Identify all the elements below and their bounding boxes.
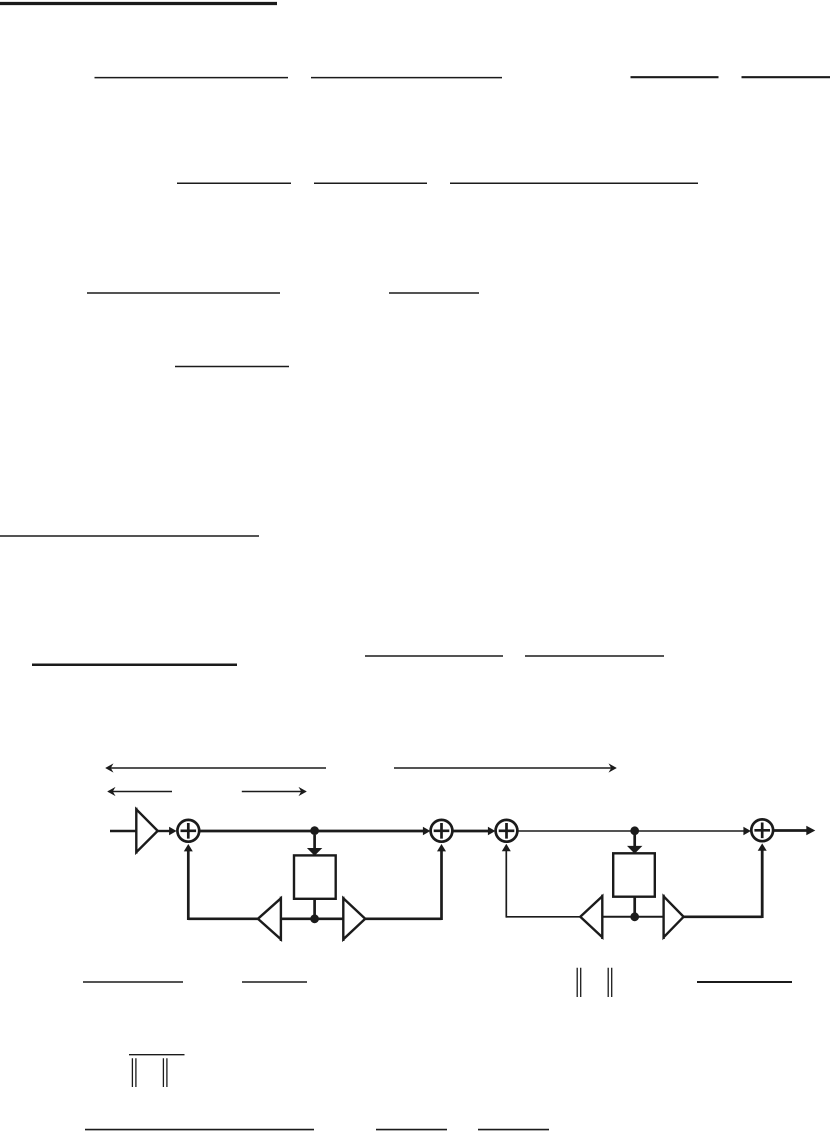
adder S1a [177, 820, 199, 842]
fraction bar eq row 1 seg 1 [95, 77, 289, 79]
wire: output [774, 829, 808, 832]
fraction bar eq row 1 seg 2 [311, 77, 502, 79]
gain triangle L1 (points left) [258, 897, 281, 941]
delay box 2 [613, 853, 655, 896]
gain triangle L2 (points left) [580, 895, 602, 939]
wire: input [110, 830, 136, 832]
wire: N1 to adder S1b [315, 830, 424, 833]
wire: N2 down to delay box 2 [633, 835, 636, 847]
section heading underline (left margin) [0, 535, 259, 537]
fraction bar eq row 1 seg 4 [742, 76, 830, 78]
adder S1b [431, 820, 453, 842]
wire: feedback corner to left gain L1 [188, 917, 258, 920]
node N2 [630, 826, 639, 835]
underline row 6 seg 3 [697, 981, 792, 983]
underline row 3 seg 2 [389, 292, 479, 294]
wire: N1 down to delay box 1 [313, 835, 316, 849]
fraction bar eq row 2 seg 3 [450, 182, 698, 184]
delay box 1 [294, 855, 336, 898]
riser: right feedback up to S2b [761, 848, 764, 919]
norm bars pair 1 [577, 968, 581, 997]
wire: box 2 to node N2b [633, 897, 636, 917]
wire: R2 to right corner [684, 915, 763, 918]
wire: feedback corner to left gain L2 (thin) [506, 916, 581, 918]
bottom underline seg 3 [478, 1129, 549, 1131]
fraction bar eq row 5 seg 2 [525, 655, 664, 657]
norm bars pair 3 (denominator) [132, 1058, 136, 1087]
bottom underline seg 1 [85, 1129, 314, 1131]
fraction bar eq row 5 seg 1 [365, 655, 503, 657]
node N1 [310, 826, 319, 835]
fraction bar (lower-left equation) [129, 1054, 185, 1056]
wire: box 1 to node N1b [313, 899, 316, 919]
gain triangle B1 (input) [136, 808, 157, 854]
adder S2b [751, 819, 773, 841]
wire: S2a to node N2 (thin) [518, 830, 635, 832]
heading underline (thick, mid-page) [32, 663, 237, 666]
wire: L1 base to N1b [281, 917, 315, 920]
wire: N1b to right gain R1 [315, 917, 344, 920]
underline row 6 seg 2 [242, 981, 307, 983]
wire: N2 to adder S2b (thin) [635, 830, 745, 832]
wire: R1 to right corner [365, 917, 441, 920]
underline row 3 seg 1 [87, 292, 280, 294]
riser: left feedback up to S2a (thin) [505, 849, 507, 918]
gain triangle R1 (points right) [343, 897, 365, 941]
adder S2a [496, 820, 518, 842]
dimension arrow upper-left (points left) [105, 763, 326, 772]
bottom underline seg 2 [376, 1129, 447, 1131]
heading underline (thick, top-left) [0, 2, 277, 5]
node N2b [630, 912, 639, 921]
wire: S1a to node N1 [200, 830, 315, 833]
wire: S1b to adder S2a [453, 830, 489, 833]
riser: right feedback up to S1b [440, 849, 443, 921]
gain triangle R2 (points right) [664, 895, 684, 939]
wire: L2 base to N2b [602, 916, 634, 918]
norm bars pair 4 (denominator) [163, 1058, 167, 1087]
wire: B1 to adder S1a [158, 830, 170, 832]
fraction bar eq row 2 seg 1 [177, 182, 291, 184]
node N1b [310, 914, 319, 923]
dimension arrow lower-left (points left) [107, 787, 172, 796]
underline row 4 [175, 366, 289, 368]
wire: N2b to right gain R2 [635, 916, 664, 918]
fraction bar eq row 2 seg 2 [314, 182, 427, 184]
dimension arrow lower-right (points right) [242, 787, 307, 796]
underline row 6 seg 1 [83, 981, 183, 983]
dimension arrow upper-right (points right) [394, 763, 617, 772]
fraction bar eq row 1 seg 3 [631, 76, 719, 78]
norm bars pair 2 [608, 968, 612, 997]
riser: left feedback up to S1a [187, 849, 190, 921]
